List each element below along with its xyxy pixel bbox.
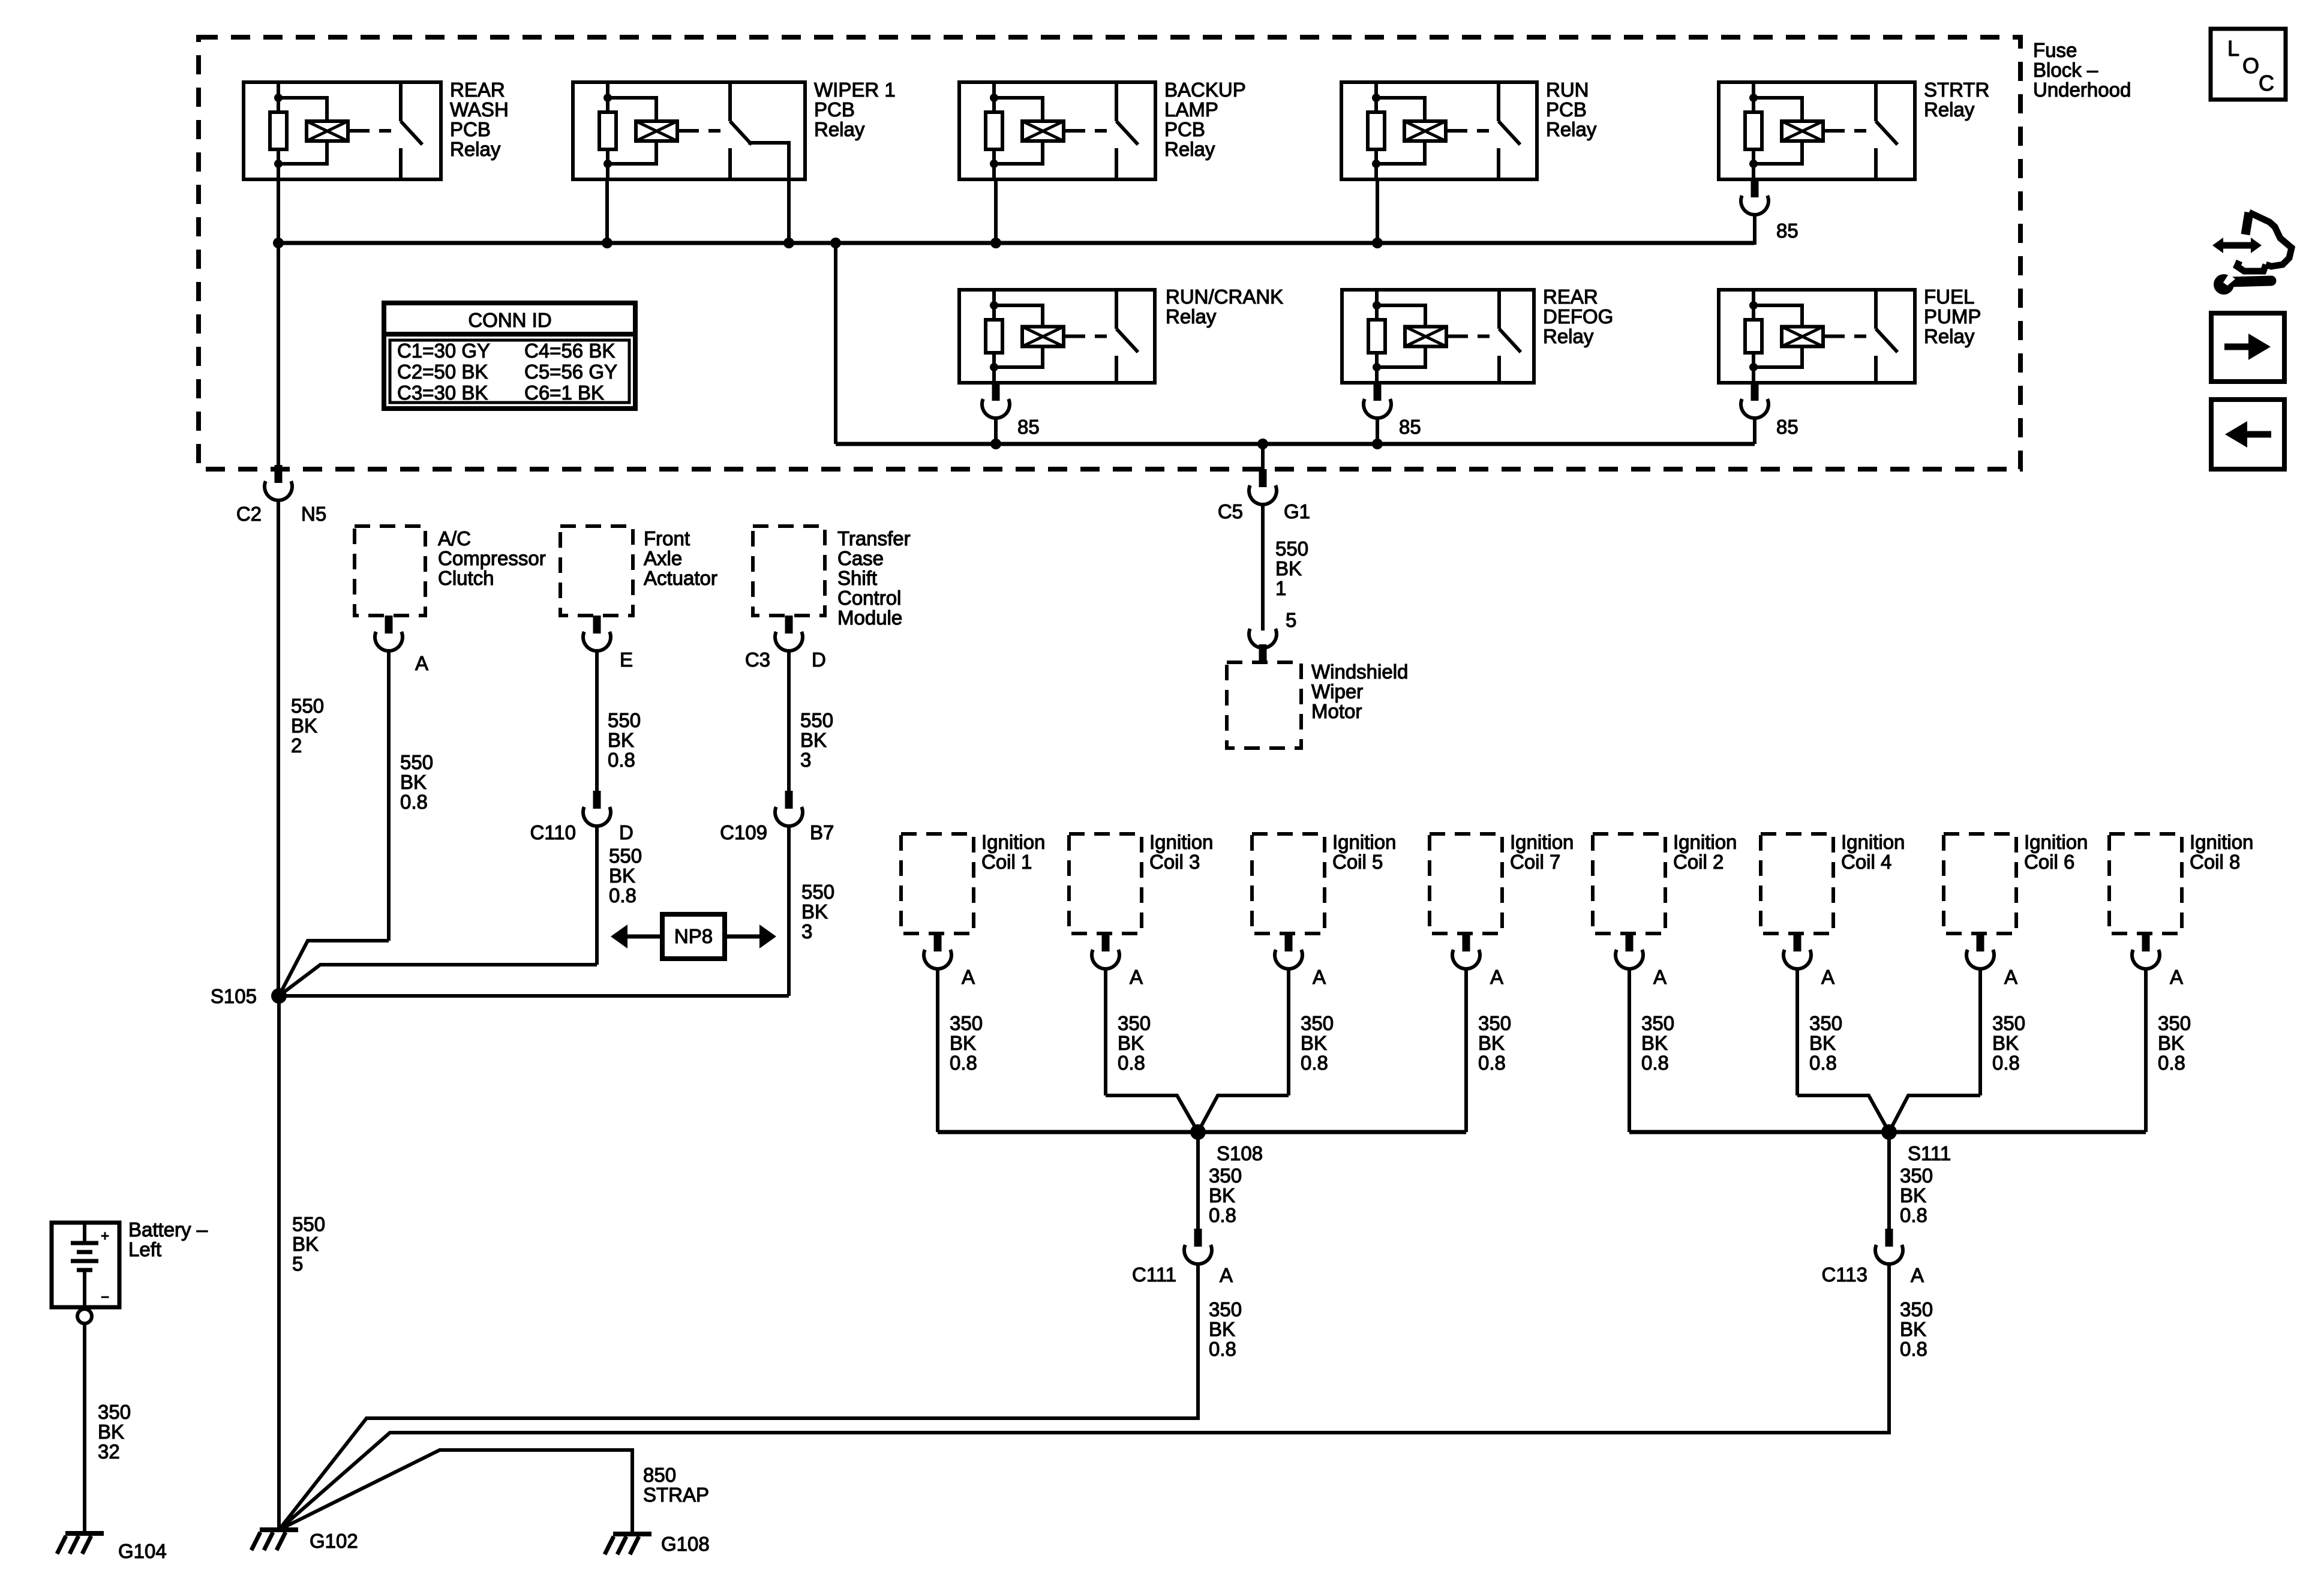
- svg-text:Relay: Relay: [1924, 98, 1975, 121]
- svg-text:A: A: [1313, 966, 1326, 988]
- svg-text:Ignition: Ignition: [1673, 831, 1737, 853]
- svg-text:A: A: [1653, 966, 1667, 988]
- svg-text:S111: S111: [1908, 1142, 1951, 1164]
- svg-text:350: 350: [1900, 1164, 1933, 1187]
- svg-text:Ignition: Ignition: [1841, 831, 1905, 853]
- svg-text:C2: C2: [236, 503, 262, 525]
- svg-text:350: 350: [1809, 1012, 1842, 1034]
- svg-text:A/C: A/C: [438, 527, 471, 550]
- svg-text:0.8: 0.8: [1900, 1204, 1927, 1226]
- svg-text:0.8: 0.8: [1209, 1338, 1236, 1360]
- svg-text:0.8: 0.8: [609, 884, 636, 906]
- svg-text:A: A: [1911, 1264, 1924, 1286]
- svg-text:85: 85: [1776, 416, 1798, 438]
- svg-text:PCB: PCB: [450, 118, 491, 140]
- svg-text:C: C: [2259, 71, 2274, 95]
- svg-text:D: D: [812, 649, 826, 671]
- svg-text:A: A: [2170, 966, 2183, 988]
- svg-text:85: 85: [1399, 416, 1421, 438]
- svg-text:S108: S108: [1217, 1142, 1263, 1164]
- svg-text:2: 2: [291, 734, 302, 757]
- svg-text:Relay: Relay: [1166, 305, 1217, 328]
- svg-text:Coil 4: Coil 4: [1841, 851, 1891, 873]
- svg-text:C3: C3: [745, 649, 770, 671]
- svg-text:BK: BK: [609, 864, 635, 887]
- svg-text:BK: BK: [1641, 1032, 1668, 1054]
- svg-text:Underhood: Underhood: [2033, 79, 2131, 101]
- svg-text:STRAP: STRAP: [643, 1484, 709, 1506]
- svg-text:RUN: RUN: [1546, 79, 1589, 101]
- svg-text:0.8: 0.8: [1301, 1052, 1328, 1074]
- svg-text:BK: BK: [98, 1421, 124, 1443]
- svg-text:BK: BK: [608, 729, 634, 751]
- svg-text:85: 85: [1017, 416, 1040, 438]
- svg-text:BK: BK: [400, 771, 427, 793]
- svg-text:Case: Case: [837, 547, 884, 569]
- svg-text:BK: BK: [1900, 1318, 1926, 1340]
- svg-text:Clutch: Clutch: [438, 567, 494, 589]
- svg-text:350: 350: [1992, 1012, 2025, 1034]
- svg-text:550: 550: [400, 751, 433, 773]
- svg-text:3: 3: [800, 749, 811, 771]
- svg-text:0.8: 0.8: [1900, 1338, 1927, 1360]
- svg-text:C4=56 BK: C4=56 BK: [524, 340, 615, 362]
- svg-text:PCB: PCB: [1546, 98, 1587, 121]
- svg-text:350: 350: [98, 1401, 131, 1423]
- svg-text:E: E: [620, 649, 633, 671]
- svg-text:350: 350: [1641, 1012, 1674, 1034]
- svg-text:BK: BK: [801, 900, 828, 923]
- svg-text:550: 550: [800, 709, 833, 731]
- svg-text:Coil 1: Coil 1: [981, 851, 1032, 873]
- svg-text:N5: N5: [301, 503, 326, 525]
- svg-text:Relay: Relay: [1543, 325, 1594, 347]
- svg-text:32: 32: [98, 1440, 120, 1463]
- svg-text:C5: C5: [1218, 500, 1243, 523]
- svg-text:Motor: Motor: [1311, 700, 1362, 722]
- svg-text:550: 550: [608, 709, 641, 731]
- svg-text:0.8: 0.8: [1478, 1052, 1506, 1074]
- svg-text:D: D: [619, 821, 633, 843]
- svg-text:Ignition: Ignition: [1332, 831, 1396, 853]
- svg-text:350: 350: [1118, 1012, 1151, 1034]
- svg-text:Battery –: Battery –: [128, 1218, 208, 1241]
- svg-text:Shift: Shift: [837, 567, 877, 589]
- svg-text:LAMP: LAMP: [1164, 98, 1218, 121]
- svg-text:0.8: 0.8: [1641, 1052, 1669, 1074]
- svg-text:A: A: [2004, 966, 2017, 988]
- svg-text:0.8: 0.8: [1209, 1204, 1236, 1226]
- svg-text:Fuse: Fuse: [2033, 39, 2077, 61]
- svg-text:REAR: REAR: [1543, 286, 1598, 308]
- svg-text:0.8: 0.8: [2158, 1052, 2185, 1074]
- svg-text:350: 350: [1209, 1298, 1242, 1320]
- svg-text:G102: G102: [310, 1530, 358, 1552]
- svg-text:−: −: [101, 1289, 109, 1305]
- svg-text:C3=30 BK: C3=30 BK: [397, 382, 488, 404]
- svg-text:A: A: [415, 652, 428, 674]
- svg-text:STRTR: STRTR: [1924, 79, 1989, 101]
- svg-text:Coil 8: Coil 8: [2190, 851, 2240, 873]
- svg-text:A: A: [1130, 966, 1143, 988]
- svg-text:DEFOG: DEFOG: [1543, 305, 1613, 328]
- svg-text:A: A: [1490, 966, 1503, 988]
- svg-text:Coil 5: Coil 5: [1332, 851, 1383, 873]
- svg-text:Compressor: Compressor: [438, 547, 546, 569]
- svg-text:A: A: [1220, 1264, 1233, 1286]
- svg-text:L: L: [2227, 36, 2239, 61]
- svg-text:3: 3: [801, 920, 812, 942]
- svg-text:Windshield: Windshield: [1311, 661, 1408, 683]
- svg-text:G1: G1: [1284, 500, 1310, 523]
- svg-text:Ignition: Ignition: [1510, 831, 1574, 853]
- svg-text:C1=30 GY: C1=30 GY: [397, 340, 490, 362]
- svg-text:0.8: 0.8: [1992, 1052, 2020, 1074]
- svg-text:550: 550: [291, 695, 324, 717]
- svg-text:C6=1 BK: C6=1 BK: [524, 382, 604, 404]
- svg-text:0.8: 0.8: [400, 791, 428, 813]
- svg-text:PCB: PCB: [1164, 118, 1205, 140]
- svg-text:BK: BK: [1118, 1032, 1144, 1054]
- svg-text:350: 350: [1900, 1298, 1933, 1320]
- svg-text:BK: BK: [2158, 1032, 2184, 1054]
- svg-text:Block –: Block –: [2033, 59, 2098, 81]
- svg-text:C110: C110: [530, 821, 576, 843]
- svg-text:CONN ID: CONN ID: [468, 309, 551, 331]
- svg-text:FUEL: FUEL: [1924, 286, 1974, 308]
- svg-text:Ignition: Ignition: [1149, 831, 1213, 853]
- svg-text:G108: G108: [661, 1533, 710, 1555]
- svg-text:350: 350: [1209, 1164, 1242, 1187]
- svg-text:BK: BK: [1992, 1032, 2019, 1054]
- svg-text:Control: Control: [837, 587, 901, 609]
- svg-text:Coil 3: Coil 3: [1149, 851, 1200, 873]
- svg-text:PCB: PCB: [814, 98, 855, 121]
- svg-text:Relay: Relay: [814, 118, 865, 140]
- svg-text:Coil 2: Coil 2: [1673, 851, 1724, 873]
- svg-text:C111: C111: [1132, 1263, 1176, 1286]
- svg-text:BK: BK: [1209, 1318, 1235, 1340]
- svg-text:BK: BK: [1478, 1032, 1505, 1054]
- svg-text:Relay: Relay: [1546, 118, 1597, 140]
- svg-text:5: 5: [292, 1253, 303, 1275]
- svg-text:0.8: 0.8: [608, 749, 635, 771]
- svg-text:C109: C109: [720, 821, 767, 843]
- svg-text:BK: BK: [1275, 557, 1302, 580]
- svg-text:Relay: Relay: [450, 138, 501, 160]
- svg-text:5: 5: [1286, 609, 1296, 631]
- svg-text:BACKUP: BACKUP: [1164, 79, 1246, 101]
- svg-text:WASH: WASH: [450, 98, 509, 121]
- svg-text:0.8: 0.8: [1118, 1052, 1145, 1074]
- svg-text:Axle: Axle: [644, 547, 682, 569]
- svg-text:350: 350: [1478, 1012, 1511, 1034]
- svg-text:C2=50 BK: C2=50 BK: [397, 361, 488, 383]
- svg-text:RUN/CRANK: RUN/CRANK: [1166, 286, 1283, 308]
- svg-text:REAR: REAR: [450, 79, 505, 101]
- svg-text:BK: BK: [291, 715, 317, 737]
- svg-text:Module: Module: [837, 607, 902, 629]
- svg-text:Ignition: Ignition: [981, 831, 1045, 853]
- svg-text:BK: BK: [292, 1233, 319, 1255]
- svg-text:550: 550: [1275, 538, 1308, 560]
- svg-text:Ignition: Ignition: [2024, 831, 2088, 853]
- svg-text:Relay: Relay: [1164, 138, 1215, 160]
- svg-text:BK: BK: [800, 729, 827, 751]
- svg-text:350: 350: [1301, 1012, 1334, 1034]
- svg-text:A: A: [962, 966, 975, 988]
- svg-text:85: 85: [1776, 220, 1798, 242]
- svg-text:Relay: Relay: [1924, 325, 1975, 347]
- svg-text:Left: Left: [128, 1238, 161, 1260]
- svg-text:B7: B7: [810, 821, 834, 843]
- svg-text:+: +: [101, 1228, 109, 1244]
- svg-text:350: 350: [950, 1012, 983, 1034]
- svg-text:C113: C113: [1822, 1263, 1867, 1286]
- svg-text:O: O: [2242, 53, 2259, 78]
- svg-text:1: 1: [1275, 577, 1286, 599]
- svg-text:Coil 6: Coil 6: [2024, 851, 2074, 873]
- svg-text:Transfer: Transfer: [837, 527, 911, 550]
- svg-text:0.8: 0.8: [1809, 1052, 1837, 1074]
- svg-text:850: 850: [643, 1464, 676, 1486]
- svg-text:BK: BK: [950, 1032, 976, 1054]
- svg-text:550: 550: [801, 881, 834, 903]
- svg-text:550: 550: [292, 1213, 325, 1235]
- svg-text:Wiper: Wiper: [1311, 680, 1363, 703]
- svg-text:PUMP: PUMP: [1924, 305, 1981, 328]
- svg-text:BK: BK: [1209, 1184, 1235, 1206]
- svg-text:BK: BK: [1301, 1032, 1327, 1054]
- svg-text:550: 550: [609, 845, 642, 867]
- svg-text:350: 350: [2158, 1012, 2191, 1034]
- svg-text:Actuator: Actuator: [644, 567, 717, 589]
- svg-text:C5=56 GY: C5=56 GY: [524, 361, 617, 383]
- svg-text:BK: BK: [1809, 1032, 1836, 1054]
- svg-text:Ignition: Ignition: [2190, 831, 2253, 853]
- svg-text:Front: Front: [644, 527, 690, 550]
- svg-text:NP8: NP8: [674, 925, 713, 947]
- svg-text:A: A: [1821, 966, 1834, 988]
- svg-text:S105: S105: [211, 985, 257, 1007]
- svg-text:WIPER 1: WIPER 1: [814, 79, 896, 101]
- svg-text:BK: BK: [1900, 1184, 1926, 1206]
- svg-text:G104: G104: [118, 1540, 167, 1562]
- svg-text:0.8: 0.8: [950, 1052, 977, 1074]
- svg-text:Coil 7: Coil 7: [1510, 851, 1560, 873]
